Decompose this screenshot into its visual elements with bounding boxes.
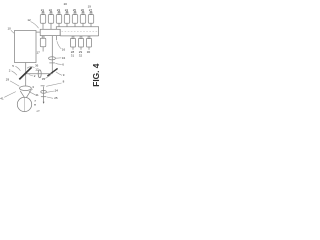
svg-text:35: 35 [42,77,46,81]
laser diode LD6 [80,12,85,27]
svg-text:25: 25 [73,8,77,12]
svg-text:12: 12 [35,67,39,71]
laser diode LD7 [88,12,93,27]
svg-text:12: 12 [27,18,31,22]
main beam vertical [51,36,53,74]
detail lens [41,91,47,94]
leader 2 mirror [29,75,33,76]
leader 34 [56,57,61,59]
svg-text:32: 32 [79,53,83,57]
wire controller down [25,63,27,87]
photodiode PD3 [86,36,91,50]
laser diode LD3 [56,12,61,27]
laser diode LD1 [40,12,45,30]
photodiode PD1 [70,36,75,50]
detail column line [43,87,45,103]
wire bus top [56,27,98,36]
svg-text:FIG. 4: FIG. 4 [91,63,101,87]
svg-text:20: 20 [64,2,68,6]
leader 3 [29,89,33,92]
collimating lens [49,57,56,60]
fold mirror right [47,68,57,76]
leader 12 bus [31,22,39,29]
objective lens [20,86,32,91]
photodiode PD2 [78,36,83,50]
ray right [26,91,30,98]
svg-text:19: 19 [88,4,92,8]
eyeball axis [24,97,26,111]
leader left 41 [4,92,16,98]
detail column tick1 [41,85,45,87]
wire box to combiner [36,31,40,33]
controller box [15,31,37,63]
svg-text:41: 41 [0,96,4,100]
svg-text:24: 24 [65,8,69,12]
laser diode LD4 [64,12,69,27]
leader 25 [47,97,53,98]
svg-text:34: 34 [62,56,66,60]
svg-text:17: 17 [37,51,41,55]
svg-text:16: 16 [62,47,66,51]
leader 8 [46,83,61,86]
leader 7 [27,67,35,69]
svg-text:24: 24 [55,89,59,93]
waveguide dashed line [62,31,99,33]
svg-text:10: 10 [8,27,12,31]
horizontal beam [26,73,53,75]
svg-text:29: 29 [6,78,10,82]
detail arrow [43,102,45,104]
isolator bottle under box A [40,36,46,52]
leader left 29 [10,81,19,86]
leader right 41 [29,92,35,95]
svg-text:26: 26 [81,8,85,12]
svg-text:31: 31 [71,53,75,57]
combiner box A [40,29,60,35]
leader 24 [47,91,55,92]
leader 10 [11,30,14,33]
leader 6 [55,63,61,64]
svg-text:23: 23 [57,8,61,12]
detail tick2 [41,96,46,98]
leader 16 [57,41,61,49]
svg-text:27: 27 [89,8,93,12]
svg-text:25: 25 [54,96,58,100]
laser diode LD5 [72,12,77,27]
eyeball [17,97,31,111]
svg-text:22: 22 [49,8,53,12]
leader left 2 [12,71,18,75]
relay lens vertical [38,70,41,78]
leader 5 [15,66,20,70]
svg-text:30: 30 [87,50,91,54]
stub under combiner [56,36,58,40]
dash below eyeball [37,110,40,113]
laser diode LD2 [48,12,53,30]
leader 35 [45,75,50,78]
svg-text:21: 21 [41,8,45,12]
aperture tick [49,62,55,64]
svg-text:41: 41 [35,93,39,97]
combiner box B [60,35,98,37]
ray left [20,91,24,98]
scan mirror left [19,67,31,79]
pointer arrow eyeball [34,104,36,106]
leader 9 [56,72,62,75]
